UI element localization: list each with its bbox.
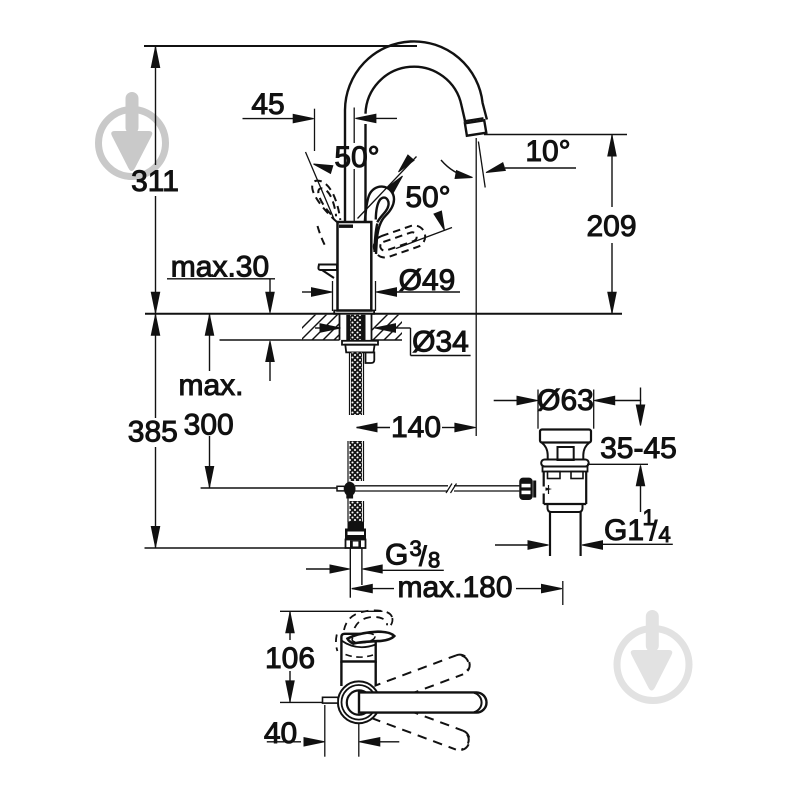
leader line left extreme	[306, 152, 335, 219]
spout centerline	[353, 108, 355, 144]
dimension max.300	[209, 314, 211, 371]
leader line solid position	[358, 157, 417, 219]
top view spout body	[341, 634, 375, 662]
dimension 311 vertical line	[155, 46, 157, 165]
rod break marks	[446, 484, 452, 494]
label G1 1/4	[495, 544, 528, 546]
top view solid handle bar	[359, 692, 486, 712]
tilted 10deg line	[478, 142, 485, 188]
deck top line	[145, 313, 622, 315]
braided hose upper segment	[349, 352, 351, 415]
top view escutcheon body	[343, 661, 375, 689]
spout gooseneck inner wall	[366, 67, 465, 222]
svg-text:106: 106	[265, 642, 315, 675]
svg-text:140: 140	[391, 411, 441, 444]
spout outlet reference line	[484, 134, 627, 136]
braided hose lower segment	[347, 441, 349, 492]
rod end stub	[337, 486, 345, 491]
rod clamp mark inside body	[546, 488, 553, 491]
dia63 dimension	[537, 390, 539, 429]
swivel arc arrow	[441, 160, 470, 178]
dimension 106	[289, 611, 291, 640]
pop-up rod joint ball	[344, 482, 356, 497]
svg-text:45: 45	[251, 88, 284, 121]
dimension 45	[243, 118, 295, 120]
top view spout inner curve	[341, 641, 375, 648]
top view rod stub	[323, 697, 339, 703]
mounting nut	[342, 341, 378, 345]
top view handle blade	[348, 632, 395, 644]
spout aerator separating line	[464, 118, 484, 121]
top view dashed handle lowered	[371, 699, 472, 753]
lever handle solid loop	[365, 187, 394, 254]
base plate	[334, 311, 374, 314]
drain valve body	[544, 472, 587, 505]
mounting shank through deck	[340, 315, 371, 340]
spout gooseneck outer wall	[345, 41, 487, 222]
dimension 209	[611, 135, 613, 208]
svg-text:300: 300	[184, 409, 234, 442]
watermark logo right-middle	[617, 610, 689, 701]
drain shoulder	[548, 504, 583, 512]
label dia34	[315, 327, 321, 329]
second hose tab	[366, 352, 375, 363]
watermark logo top-left	[99, 92, 166, 177]
svg-text:50°: 50°	[405, 181, 450, 214]
pop-up rod horizontal	[355, 485, 448, 487]
lever side stub	[318, 265, 337, 271]
top view: upper reference line	[280, 610, 383, 612]
svg-text:Ø34: Ø34	[412, 326, 469, 359]
svg-text:10°: 10°	[525, 135, 570, 168]
top view dashed handle raised	[371, 652, 472, 706]
tightening knob	[520, 478, 532, 499]
vertical axis line from outlet	[475, 138, 477, 436]
svg-text:385: 385	[128, 416, 178, 449]
drain seat flange	[541, 460, 589, 467]
svg-text:4: 4	[659, 522, 671, 547]
svg-text:35-45: 35-45	[600, 432, 677, 465]
svg-text:max.: max.	[178, 369, 243, 402]
svg-text:max.180: max.180	[397, 571, 512, 604]
bottom reference line (hose end level)	[145, 547, 346, 549]
leader for 10deg	[505, 167, 576, 169]
label G3/8	[306, 568, 330, 570]
top view base circles	[338, 681, 380, 723]
dimension max.180	[352, 584, 373, 592]
hose end tube	[349, 548, 351, 598]
svg-text:G: G	[385, 539, 408, 572]
hose end fitting	[348, 522, 365, 529]
leader line lowered extreme	[396, 228, 452, 249]
svg-text:40: 40	[264, 717, 297, 750]
drain plug flange	[540, 430, 591, 443]
dimension 385	[155, 314, 157, 418]
top reference line (spout top level)	[144, 45, 417, 47]
spout aerator tip	[465, 120, 486, 135]
top view handle boss	[347, 690, 371, 714]
lever handle dashed loop (raised 50deg)	[312, 181, 340, 246]
drain tailpipe	[549, 512, 551, 556]
lever handle dashed capsule (lowered 50deg)	[371, 222, 428, 260]
svg-text:50°: 50°	[334, 141, 379, 174]
dimension 140	[357, 423, 378, 431]
pop-up rod level line	[201, 487, 337, 489]
svg-text:Ø63: Ø63	[537, 384, 594, 417]
svg-text:311: 311	[131, 165, 179, 198]
svg-text:8: 8	[428, 548, 440, 573]
body top tick	[339, 225, 353, 228]
braid below ball	[350, 501, 363, 522]
deck bottom line	[220, 339, 340, 341]
svg-text:/: /	[419, 541, 427, 572]
drain neck	[542, 443, 590, 461]
top view: lower reference line	[280, 701, 338, 703]
svg-text:209: 209	[586, 210, 636, 243]
svg-text:/: /	[650, 515, 658, 546]
dimension 40	[267, 741, 301, 743]
label dia49	[332, 281, 334, 311]
svg-text:Ø49: Ø49	[399, 264, 456, 297]
top view dashed spout arcs	[336, 610, 393, 651]
faucet body column	[338, 222, 372, 311]
dimension 35-45	[640, 388, 642, 407]
svg-text:G1: G1	[604, 514, 644, 547]
